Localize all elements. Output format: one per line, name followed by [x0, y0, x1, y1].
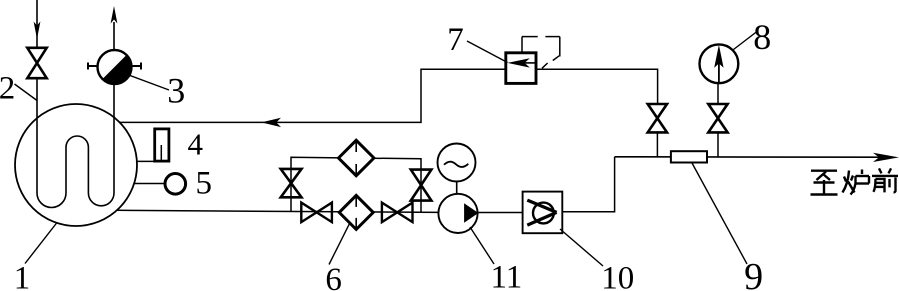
filter (bypass, diamond) — [339, 140, 374, 175]
svg-text:4: 4 — [188, 127, 204, 162]
tank 1 (oil tank circle) — [15, 104, 137, 226]
pump 11 (circle with solid triangle) — [438, 194, 478, 233]
valve (bypass left riser) — [281, 169, 302, 197]
leader to label 9 — [692, 163, 747, 264]
svg-text:3: 3 — [167, 71, 185, 111]
leader to label 1 — [25, 223, 57, 264]
wire: oil inlet line (top-left, vertical) — [36, 0, 38, 48]
leader to label 2 — [15, 84, 38, 101]
wire: line from tank to gauge 5 — [134, 183, 166, 185]
three-way valve 3 (circle, half filled) — [88, 50, 141, 84]
svg-text:5: 5 — [195, 166, 212, 202]
valve (left, above line to furnace) — [648, 104, 667, 132]
meter 9 (rectangle on line) — [671, 151, 707, 162]
valve (suction line, right of filter 6) — [382, 203, 413, 223]
vent arrow (up) — [111, 6, 118, 24]
valve (bypass right riser) — [411, 170, 432, 201]
svg-text:1: 1 — [14, 261, 31, 291]
text 至 (to) — [811, 171, 838, 195]
valve 2 (inlet valve, vertical bowtie) — [27, 48, 46, 78]
leader to label 8 — [734, 32, 758, 50]
valve (suction line, left of filter 6) — [301, 203, 332, 223]
wire: branch up to pressure gauge 8 — [717, 132, 719, 156]
leader to label 10 — [560, 229, 603, 266]
wire: return line from regulator 7 to tank — [119, 69, 505, 122]
main discharge line to furnace — [615, 156, 879, 158]
wire: vent line above valve 3 — [113, 22, 115, 50]
motor (circle with ~) — [438, 144, 476, 182]
bypass loop wire — [291, 157, 421, 212]
leader to label 3 — [126, 74, 169, 90]
wire: valve to gauge 8 — [717, 83, 719, 104]
leader to label 11 — [470, 227, 494, 264]
svg-text:10: 10 — [601, 261, 634, 291]
svg-text:2: 2 — [0, 71, 15, 107]
svg-text:7: 7 — [447, 22, 464, 58]
svg-text:8: 8 — [753, 17, 771, 57]
flow indicator 10 (box with circle and chevron) — [523, 192, 563, 234]
arrow to furnace (right) — [873, 153, 899, 162]
level gauge 5 (circle) — [165, 174, 186, 195]
heating coil (W-shaped tube) + vent leg — [37, 78, 114, 207]
valve (below gauge 8) — [708, 104, 727, 132]
wire: from regulator to shut-off valve (right pipe + down leg) — [537, 69, 658, 104]
thermometer 4 — [155, 129, 169, 161]
leader to label 7 — [467, 41, 508, 63]
wire: motor to pump shaft — [456, 182, 458, 195]
wire: pump to flow indicator 10 — [478, 212, 523, 214]
leader to label 6 — [329, 224, 349, 264]
svg-text:11: 11 — [491, 260, 523, 291]
wire: valve to main discharge line — [656, 132, 658, 156]
wire: line from tank to thermometer 4 — [137, 160, 169, 162]
text 前 (front) — [872, 168, 898, 192]
pressure gauge 8 (circle with needle arrow) — [700, 44, 739, 83]
svg-text:9: 9 — [744, 256, 763, 291]
wire: indicator 10 to discharge line — [562, 157, 614, 212]
text 炉 (furnace) — [843, 170, 870, 195]
svg-text:6: 6 — [325, 262, 342, 291]
return flow arrow (left) — [261, 118, 281, 127]
regulator valve 7 (box with left arrow) — [506, 53, 537, 84]
filter 6 (main diamond) — [339, 195, 373, 229]
suction line from tank to pump — [117, 210, 439, 212]
inlet flow arrow (down) — [34, 22, 41, 40]
impulse line (dashed) of regulator 7 — [522, 37, 560, 69]
